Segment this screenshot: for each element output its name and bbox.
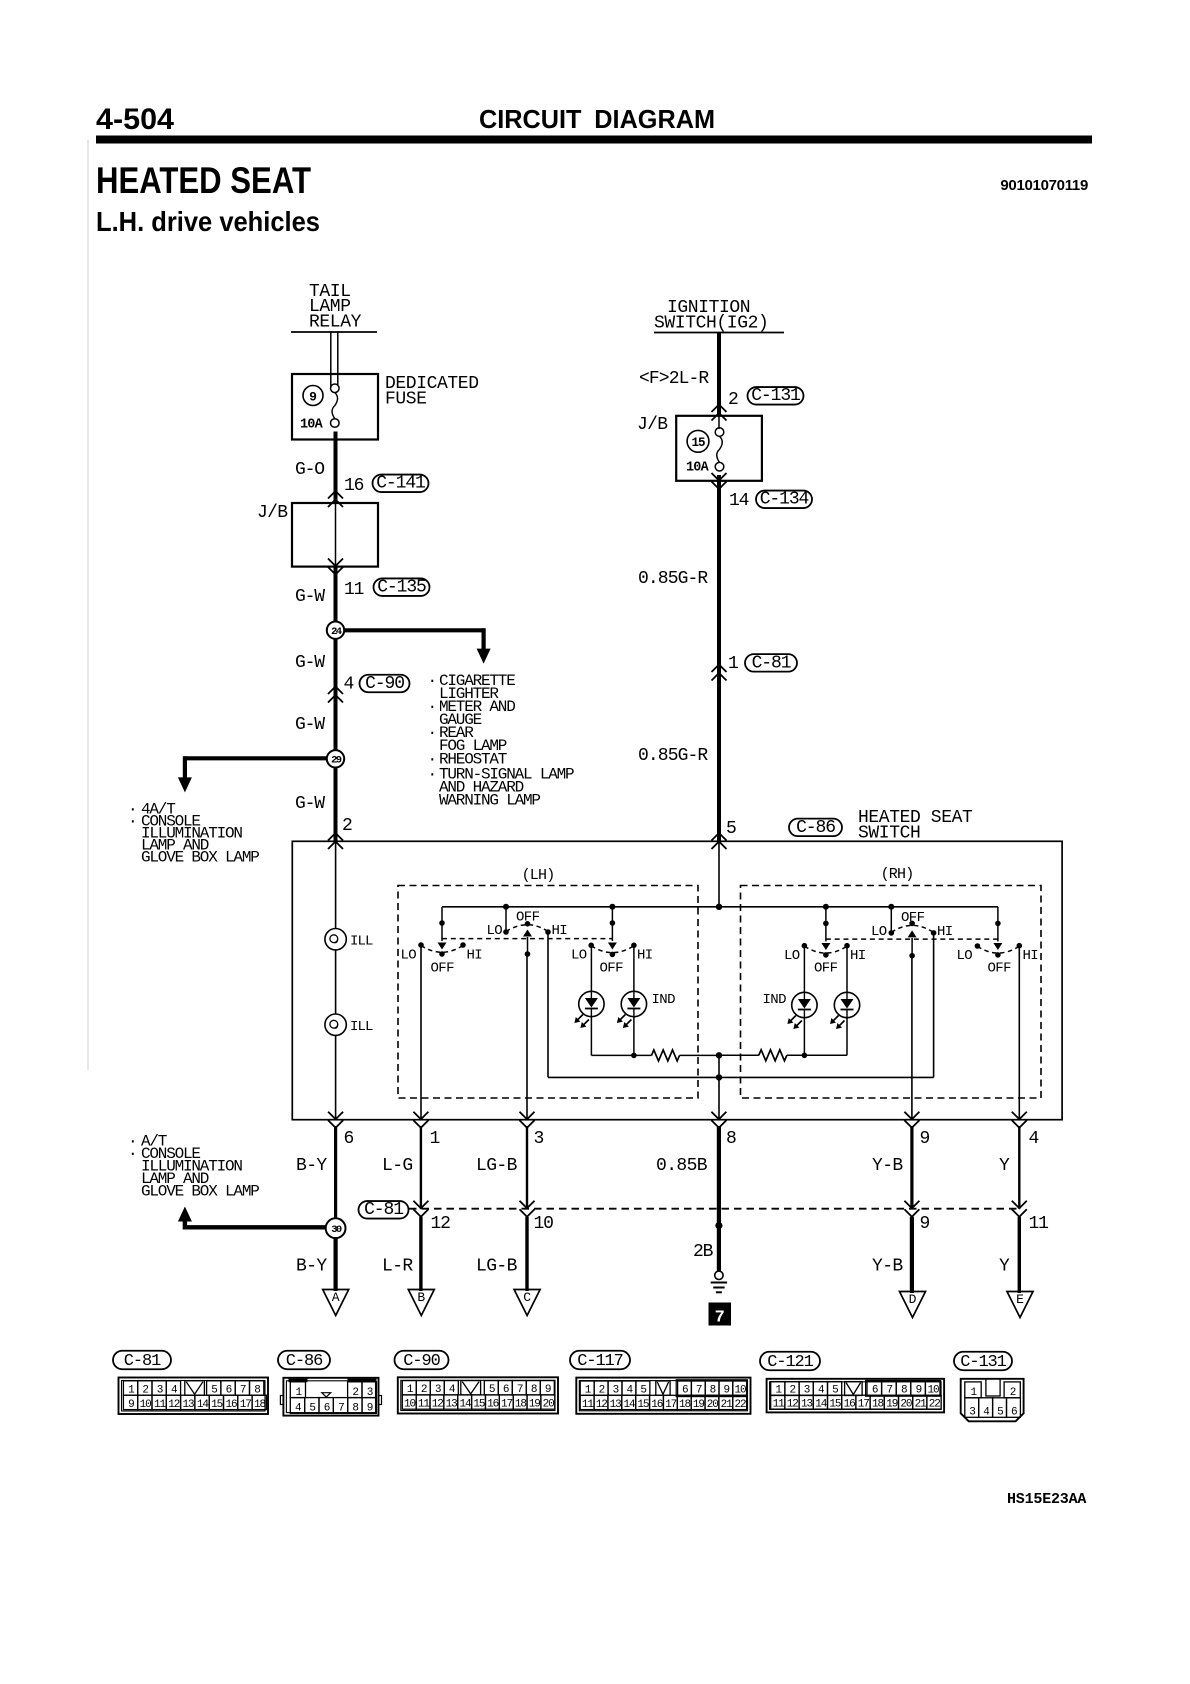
- svg-text:GLOVE BOX LAMP: GLOVE BOX LAMP: [141, 1183, 259, 1201]
- svg-text:19: 19: [693, 1399, 705, 1411]
- wire ignition to J/B: [717, 333, 721, 416]
- wire pin4 to connector C-81: [1018, 1126, 1020, 1209]
- svg-text:11: 11: [1029, 1214, 1049, 1234]
- wire HI to LED2 LH: [633, 945, 635, 991]
- fuse element symbol (right): [715, 428, 724, 471]
- svg-text:2: 2: [728, 390, 738, 410]
- connector chevrons at J/B entry 16: [328, 491, 343, 507]
- svg-text:L.H. drive vehicles: L.H. drive vehicles: [96, 206, 320, 237]
- svg-text:10: 10: [140, 1399, 152, 1411]
- J/B label (right): [637, 415, 668, 435]
- svg-text:7: 7: [338, 1403, 344, 1415]
- wire pin9 to connector C-81: [910, 1126, 913, 1209]
- svg-text:12: 12: [787, 1398, 799, 1410]
- svg-text:·: ·: [128, 813, 136, 831]
- svg-text:C-135: C-135: [377, 578, 426, 598]
- pin 11: [344, 580, 364, 600]
- svg-text:D: D: [909, 1292, 917, 1307]
- svg-text:9: 9: [920, 1214, 930, 1234]
- svg-text:8: 8: [352, 1403, 358, 1415]
- pin 1 C-81: [728, 654, 738, 674]
- svg-text:13: 13: [801, 1398, 813, 1410]
- svg-text:HI: HI: [937, 924, 953, 940]
- svg-text:FUSE: FUSE: [385, 390, 427, 410]
- connector chevrons C-90: [328, 687, 343, 703]
- svg-text:16: 16: [225, 1399, 237, 1411]
- connector pinout C-117: [570, 1351, 751, 1414]
- svg-text:2B: 2B: [693, 1242, 714, 1262]
- center feed wire from pin 5: [716, 841, 722, 910]
- connector chevrons at J/B exit 11: [328, 559, 343, 575]
- wire label 0.85G-R (2): [638, 746, 708, 766]
- switch box exit chevrons and pin numbers: [328, 1112, 1038, 1149]
- wire LH LO contact to pin 1: [420, 945, 422, 1120]
- svg-text:4: 4: [344, 675, 354, 695]
- svg-text:C-134: C-134: [760, 490, 809, 510]
- node 30: [326, 1218, 346, 1238]
- pin 5 at switch: [726, 819, 736, 839]
- svg-text:13: 13: [610, 1399, 622, 1411]
- svg-text:13: 13: [446, 1398, 458, 1410]
- svg-text:16: 16: [844, 1398, 856, 1410]
- svg-text:10A: 10A: [686, 461, 710, 476]
- svg-text:<F>2L-R: <F>2L-R: [639, 369, 709, 389]
- svg-text:6: 6: [324, 1403, 330, 1415]
- svg-text:24: 24: [331, 626, 342, 638]
- svg-text:C-141: C-141: [376, 474, 425, 494]
- svg-text:1: 1: [430, 1129, 440, 1149]
- pin 2 at switch: [342, 816, 352, 836]
- svg-text:LO: LO: [487, 923, 503, 939]
- svg-text:20: 20: [707, 1399, 719, 1411]
- svg-text:12: 12: [431, 1214, 451, 1234]
- svg-text:16: 16: [344, 476, 364, 496]
- svg-text:4: 4: [1029, 1129, 1039, 1149]
- connector C-135: [374, 578, 430, 598]
- svg-text:B-Y: B-Y: [296, 1257, 327, 1277]
- fuse rating 10A (right): [686, 461, 710, 476]
- junction block J/B (right): [676, 416, 762, 481]
- svg-text:21: 21: [915, 1398, 928, 1410]
- load list: A/T console illumination lamp and glove box lamp: [128, 1133, 259, 1201]
- svg-text:(RH): (RH): [881, 866, 914, 883]
- ignition switch label: [654, 298, 768, 334]
- svg-text:3: 3: [534, 1129, 544, 1149]
- heated seat switch label: [858, 808, 973, 844]
- svg-text:10: 10: [534, 1214, 554, 1234]
- fuse rating 10A: [300, 418, 324, 433]
- connector C-81 (inline): [745, 653, 797, 673]
- svg-text:LO: LO: [957, 948, 973, 964]
- page header: title CIRCUIT DIAGRAM: [479, 104, 715, 134]
- wire J/B to node 24: [334, 567, 338, 622]
- load list: cigarette lighter, meter and gauge, rear fog lamp, rheostat, turn-signal lamp: [428, 672, 575, 810]
- wire RH pole B to pin 9: [911, 956, 913, 1120]
- wire label 0.85G-R (1): [638, 569, 708, 589]
- connector pinout C-86: [278, 1351, 382, 1416]
- svg-text:L-R: L-R: [382, 1257, 413, 1277]
- wire HI to LED2 RH: [846, 946, 848, 993]
- svg-text:OFF: OFF: [600, 961, 624, 977]
- wire C-81 to connector B: [419, 1217, 422, 1291]
- svg-text:9: 9: [367, 1403, 373, 1415]
- header rule: [96, 136, 1092, 144]
- ground symbol pin 8: [711, 1271, 727, 1292]
- C-81 crossing chevrons and pin numbers: [413, 1201, 1048, 1234]
- wire label <F>2L-R: [639, 369, 709, 389]
- svg-text:LO: LO: [784, 948, 800, 964]
- svg-text:5: 5: [309, 1403, 315, 1415]
- RH switch pole C (indicator): [802, 907, 850, 958]
- svg-text:12: 12: [432, 1398, 444, 1410]
- svg-text:9: 9: [128, 1399, 134, 1411]
- svg-text:3: 3: [969, 1407, 975, 1419]
- svg-text:B: B: [417, 1290, 425, 1305]
- wire LO to LED1 RH: [803, 946, 805, 993]
- document code 90101070119: [1000, 177, 1088, 194]
- center wire resistor junction to pin 8: [716, 1052, 722, 1120]
- LH switch pole B (to pin 3): [503, 907, 551, 957]
- svg-text:5: 5: [726, 819, 736, 839]
- svg-text:HI: HI: [552, 923, 568, 939]
- svg-text:15: 15: [473, 1398, 485, 1410]
- fuse element symbol: [331, 384, 340, 427]
- svg-text:1: 1: [728, 654, 738, 674]
- svg-text:0.85G-R: 0.85G-R: [638, 746, 708, 766]
- wire C-81 to connector D: [910, 1217, 914, 1293]
- svg-text:Y-B: Y-B: [872, 1156, 903, 1176]
- page header: page number: [96, 103, 174, 136]
- ILL label 2: [350, 1019, 373, 1035]
- wire G-O fuse to J/B: [334, 432, 338, 503]
- svg-text:10A: 10A: [300, 418, 324, 433]
- svg-text:8: 8: [726, 1129, 736, 1149]
- LH pole C labels: [571, 948, 653, 977]
- pin 4: [344, 675, 354, 695]
- svg-text:SWITCH(IG2): SWITCH(IG2): [654, 314, 768, 334]
- svg-text:HS15E23AA: HS15E23AA: [1007, 1491, 1086, 1508]
- wire pin8 to ground: [715, 1126, 722, 1271]
- connector E: [1007, 1292, 1033, 1318]
- svg-text:C: C: [523, 1290, 531, 1305]
- svg-text:C-81: C-81: [364, 1200, 403, 1220]
- svg-text:C-86: C-86: [796, 818, 835, 838]
- svg-text:·: ·: [128, 1145, 136, 1163]
- connector D: [900, 1292, 926, 1318]
- svg-text:·: ·: [428, 724, 436, 742]
- svg-text:15: 15: [691, 436, 705, 450]
- LED IND 1 LH: [574, 991, 604, 1028]
- connector pinout C-90: [395, 1351, 559, 1414]
- pin 16: [344, 476, 364, 496]
- svg-text:·: ·: [428, 672, 436, 690]
- subtitle L.H. drive vehicles: [96, 206, 320, 237]
- RH pole A labels: [957, 948, 1039, 977]
- wire pin6 box to node 30: [334, 1126, 337, 1219]
- section title HEATED SEAT: [96, 160, 311, 201]
- svg-text:30: 30: [331, 1224, 342, 1236]
- dedicated fuse box: [292, 374, 378, 440]
- svg-text:HI: HI: [467, 948, 483, 964]
- fuse number 15: [687, 430, 709, 452]
- svg-text:C-121: C-121: [767, 1353, 813, 1372]
- wire LH pole B to pin 3: [526, 954, 528, 1120]
- svg-text:15: 15: [637, 1399, 649, 1411]
- connector chevrons C-81 inline: [712, 665, 727, 681]
- svg-text:17: 17: [240, 1399, 252, 1411]
- wire pin3 to connector C-81: [526, 1126, 528, 1209]
- RH pole C labels: [784, 948, 866, 977]
- svg-text:C-86: C-86: [286, 1352, 323, 1371]
- svg-text:HEATED SEAT: HEATED SEAT: [96, 160, 311, 201]
- wire inside J/B: [335, 503, 337, 567]
- svg-text:90101070119: 90101070119: [1000, 177, 1088, 194]
- connector chevrons at J/B entry (right): [712, 405, 727, 421]
- RH supply rail: [719, 904, 998, 910]
- svg-text:·: ·: [428, 698, 436, 716]
- LH switch pole C (indicator): [588, 907, 636, 957]
- LED return rail RH + resistor RH: [719, 1018, 847, 1061]
- svg-text:20: 20: [543, 1398, 555, 1410]
- svg-text:C-90: C-90: [365, 674, 404, 694]
- branch line from node 24 to cigarette lighter etc: [344, 628, 491, 663]
- svg-text:(LH): (LH): [522, 867, 555, 884]
- svg-text:22: 22: [734, 1399, 746, 1411]
- svg-text:11: 11: [582, 1399, 595, 1411]
- svg-text:OFF: OFF: [431, 961, 455, 977]
- wire label G-W (3): [295, 715, 325, 735]
- tail lamp relay terminal bar: [291, 331, 377, 333]
- connector C-131 (inline): [748, 386, 804, 406]
- svg-text:OFF: OFF: [988, 961, 1012, 977]
- svg-text:16: 16: [651, 1399, 663, 1411]
- LH switch pole A (to pin 1): [418, 907, 466, 957]
- svg-text:ILL: ILL: [350, 1019, 373, 1035]
- connector pinout C-121: [760, 1352, 944, 1413]
- svg-text:LO: LO: [871, 924, 887, 940]
- ignition switch terminal bar: [654, 332, 784, 334]
- wire label G-W (1): [295, 587, 325, 607]
- connector C-141: [373, 474, 429, 494]
- ILL label 1: [350, 934, 373, 950]
- svg-text:ILL: ILL: [350, 934, 373, 950]
- svg-text:IND: IND: [652, 992, 676, 1008]
- svg-text:14: 14: [729, 491, 749, 511]
- svg-text:18: 18: [254, 1399, 266, 1411]
- svg-text:WARNING LAMP: WARNING LAMP: [439, 792, 540, 810]
- svg-text:18: 18: [679, 1399, 691, 1411]
- svg-text:C-117: C-117: [577, 1352, 623, 1371]
- svg-text:0.85G-R: 0.85G-R: [638, 569, 708, 589]
- svg-text:11: 11: [154, 1399, 167, 1411]
- svg-text:14: 14: [624, 1399, 637, 1411]
- wire colors row 1: [296, 1156, 1010, 1176]
- svg-text:22: 22: [929, 1398, 941, 1410]
- svg-text:J/B: J/B: [257, 503, 288, 523]
- svg-text:17: 17: [665, 1399, 677, 1411]
- wire pin1 to connector C-81: [420, 1126, 422, 1209]
- scan edge artifact: [87, 140, 89, 1070]
- svg-text:2: 2: [342, 816, 352, 836]
- connector chevrons at switch pin 2: [328, 833, 343, 849]
- RH switch pole B (to pin 9): [889, 907, 937, 959]
- LH mechanical linkage dashed line: [442, 938, 612, 940]
- dedicated fuse label: [385, 374, 479, 410]
- svg-text:CIRCUIT DIAGRAM: CIRCUIT DIAGRAM: [479, 104, 715, 134]
- LH pole B labels: [487, 910, 568, 940]
- svg-text:14: 14: [459, 1398, 472, 1410]
- wire label 2B: [693, 1242, 714, 1262]
- connector B: [408, 1290, 434, 1316]
- tail lamp relay label: [309, 282, 362, 333]
- IND label LH: [652, 992, 676, 1008]
- wire pin2 to pin6 through ILL bulbs: [335, 841, 337, 1119]
- svg-text:HI: HI: [637, 948, 653, 964]
- node 24: [327, 622, 344, 751]
- connector chevrons at switch pin 5: [712, 833, 727, 849]
- connector C: [514, 1290, 540, 1316]
- wire node30 to connector A: [334, 1237, 338, 1291]
- svg-text:29: 29: [331, 754, 342, 766]
- svg-text:B-Y: B-Y: [296, 1156, 327, 1176]
- ground reference 7 (black box): [709, 1303, 732, 1328]
- svg-text:IND: IND: [763, 992, 787, 1008]
- wire label G-W (2): [295, 653, 325, 673]
- svg-text:11: 11: [418, 1398, 431, 1410]
- svg-text:16: 16: [487, 1398, 499, 1410]
- svg-text:9: 9: [920, 1129, 930, 1149]
- svg-text:14: 14: [815, 1398, 828, 1410]
- svg-text:4-504: 4-504: [96, 103, 174, 136]
- load list: 4A/T console illumination lamp and glove box lamp: [128, 801, 259, 867]
- connector pinout C-131: [954, 1352, 1024, 1422]
- svg-text:17: 17: [858, 1398, 870, 1410]
- connector A: [323, 1290, 349, 1316]
- connector C-86 label: [789, 818, 842, 838]
- (RH) label: [881, 866, 914, 883]
- LED IND 2 RH: [830, 992, 860, 1029]
- svg-text:LO: LO: [401, 948, 417, 964]
- svg-text:E: E: [1016, 1292, 1024, 1307]
- svg-text:12: 12: [596, 1399, 608, 1411]
- svg-text:GLOVE BOX LAMP: GLOVE BOX LAMP: [141, 849, 259, 867]
- svg-text:6: 6: [1011, 1407, 1017, 1419]
- svg-text:OFF: OFF: [901, 910, 925, 926]
- RH mechanical linkage dashed line: [826, 938, 998, 940]
- svg-text:18: 18: [872, 1398, 884, 1410]
- svg-text:C-131: C-131: [960, 1353, 1006, 1372]
- svg-text:19: 19: [529, 1398, 541, 1410]
- wire LH HI contact down and right to pin 8 rail: [548, 932, 719, 1077]
- wire inside J/B (right): [718, 416, 720, 429]
- svg-text:7: 7: [715, 1308, 725, 1327]
- IND label RH: [763, 992, 787, 1008]
- wire J/B to heated seat switch: [717, 475, 721, 841]
- LH switch dashed box: [398, 886, 698, 1099]
- wire LO to LED1 LH: [590, 945, 592, 991]
- svg-text:11: 11: [344, 580, 364, 600]
- branch from node 30 to A/T console illumination: [178, 1207, 327, 1230]
- ILL bulb 1: [325, 929, 346, 950]
- svg-text:HI: HI: [1023, 948, 1039, 964]
- LED return rail LH: [591, 1017, 651, 1058]
- wire C-81 to connector E: [1018, 1217, 1021, 1293]
- svg-text:11: 11: [773, 1398, 786, 1410]
- svg-text:18: 18: [515, 1398, 527, 1410]
- svg-text:L-G: L-G: [382, 1156, 413, 1176]
- junction block J/B (left): [292, 503, 378, 567]
- wire label G-W (4): [295, 794, 325, 814]
- pin 14: [729, 491, 749, 511]
- LED IND 2 LH: [617, 991, 647, 1028]
- connector C-90 (inline): [360, 674, 410, 694]
- svg-text:14: 14: [197, 1399, 210, 1411]
- svg-text:LG-B: LG-B: [476, 1257, 518, 1277]
- svg-text:6: 6: [344, 1129, 354, 1149]
- svg-text:A: A: [332, 1290, 340, 1305]
- ILL bulb 2: [325, 1014, 346, 1035]
- LH supply rail: [442, 904, 719, 910]
- J/B label (left): [257, 503, 288, 523]
- wire RH HI contact down and left to pin 8 rail: [719, 933, 934, 1078]
- svg-text:17: 17: [501, 1398, 513, 1410]
- svg-text:LG-B: LG-B: [476, 1156, 518, 1176]
- wire label G-O: [295, 460, 324, 480]
- svg-text:·: ·: [428, 766, 436, 784]
- svg-text:10: 10: [404, 1398, 416, 1410]
- svg-text:C-90: C-90: [403, 1352, 440, 1371]
- svg-text:12: 12: [168, 1399, 180, 1411]
- svg-text:5: 5: [997, 1407, 1003, 1419]
- svg-text:OFF: OFF: [814, 961, 838, 977]
- LH pole A labels: [401, 948, 483, 977]
- svg-text:9: 9: [309, 389, 317, 404]
- resistor LH: [652, 1050, 720, 1061]
- wire colors row 2: [296, 1257, 1010, 1277]
- node 29: [327, 750, 344, 841]
- svg-text:Y: Y: [999, 1156, 1010, 1176]
- svg-text:Y: Y: [999, 1257, 1010, 1277]
- svg-text:HI: HI: [850, 948, 866, 964]
- svg-text:G-O: G-O: [295, 460, 324, 480]
- heated seat switch box: [292, 841, 1062, 1119]
- wire: double line from relay to fuse: [331, 332, 338, 388]
- svg-text:C-131: C-131: [751, 386, 800, 406]
- fuse number 9: [303, 386, 323, 406]
- branch line from node 29 to 4A/T console illumination: [178, 756, 327, 792]
- svg-text:J/B: J/B: [637, 415, 668, 435]
- figure code HS15E23AA: [1007, 1491, 1086, 1508]
- svg-text:19: 19: [886, 1398, 898, 1410]
- svg-text:LO: LO: [571, 948, 587, 964]
- svg-text:Y-B: Y-B: [872, 1257, 903, 1277]
- svg-text:G-W: G-W: [295, 794, 325, 814]
- svg-text:0.85B: 0.85B: [656, 1156, 708, 1176]
- svg-text:G-W: G-W: [295, 587, 325, 607]
- svg-text:OFF: OFF: [516, 910, 540, 926]
- RH switch pole A (to pin 4): [975, 907, 1022, 958]
- connector C-134: [756, 490, 812, 510]
- RH switch dashed box: [741, 886, 1042, 1099]
- svg-text:G-W: G-W: [295, 653, 325, 673]
- connector pinout C-81: [113, 1351, 268, 1414]
- pin 2 C-131: [728, 390, 738, 410]
- svg-text:C-81: C-81: [124, 1352, 161, 1371]
- svg-text:RELAY: RELAY: [309, 313, 362, 333]
- LED IND 1 RH: [787, 992, 817, 1029]
- svg-text:13: 13: [183, 1399, 195, 1411]
- wire RH HI contact to pin 4: [1018, 946, 1020, 1120]
